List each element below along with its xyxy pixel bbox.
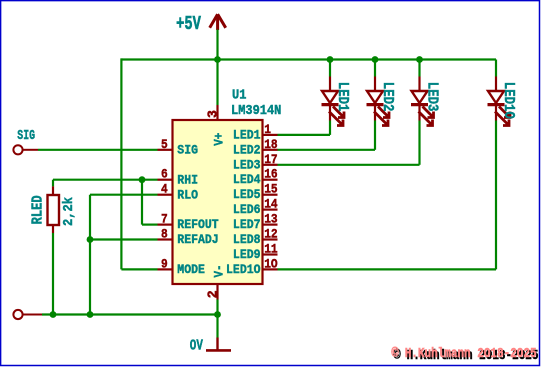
- power flag +5V arrow: [210, 14, 226, 30]
- svg-text:REFOUT: REFOUT: [177, 218, 219, 233]
- svg-text:V+: V+: [212, 133, 227, 146]
- svg-text:H.Kuhlmann 2O18-2O25: H.Kuhlmann 2O18-2O25: [405, 346, 537, 361]
- svg-text:LED1: LED1: [334, 82, 350, 112]
- svg-text:LED4: LED4: [233, 173, 261, 188]
- svg-text:8: 8: [161, 227, 168, 242]
- pin 8 REFADJ: [158, 238, 173, 240]
- svg-text:LM3914N: LM3914N: [231, 102, 281, 118]
- svg-text:16: 16: [264, 167, 277, 182]
- LED LED2: [367, 60, 395, 150]
- wire bottom rail: [42, 313, 218, 315]
- wire RLO horizontal: [90, 194, 158, 196]
- wire left vertical to MODE: [120, 58, 122, 269]
- svg-text:LED8: LED8: [233, 232, 261, 247]
- wire pin2 to rail: [216, 300, 218, 315]
- wire REFADJ horizontal: [90, 238, 158, 240]
- svg-text:9: 9: [161, 257, 168, 272]
- wire SIG to pin5: [38, 149, 158, 151]
- svg-text:LED1: LED1: [233, 128, 261, 143]
- svg-text:LED7: LED7: [233, 217, 261, 232]
- node junction rail at power stem: [214, 56, 221, 63]
- wire pin to LED10: [278, 268, 497, 270]
- pin 2 V- bottom: [206, 264, 226, 299]
- LED LED10: [488, 60, 516, 270]
- wire power stem to pin3: [216, 60, 218, 106]
- svg-text:V-: V-: [212, 264, 227, 277]
- svg-text:U1: U1: [232, 87, 247, 103]
- svg-text:©: ©: [391, 345, 399, 361]
- pin 16: [263, 179, 278, 181]
- svg-text:17: 17: [264, 152, 277, 167]
- svg-text:LED6: LED6: [233, 202, 261, 217]
- node junction REFADJ: [87, 236, 94, 243]
- pin 5 SIG: [158, 149, 173, 151]
- svg-text:5: 5: [161, 137, 168, 152]
- svg-text:REFADJ: REFADJ: [177, 232, 218, 247]
- svg-text:2: 2: [206, 290, 221, 298]
- node junction rail LED2: [372, 56, 379, 63]
- node junction rail LED3: [416, 56, 423, 63]
- pin 11: [263, 253, 278, 255]
- wire resistor top to RHI pin6: [53, 179, 158, 181]
- wire REFOUT horizontal: [142, 224, 158, 226]
- svg-text:1O: 1O: [264, 257, 277, 272]
- svg-text:+5V: +5V: [176, 14, 201, 36]
- svg-text:LED3: LED3: [233, 158, 261, 173]
- pin 10: [263, 268, 278, 270]
- wire RLO/REFADJ vertical: [89, 195, 91, 315]
- wire pin to LED2: [278, 149, 376, 151]
- svg-text:6: 6: [161, 167, 168, 182]
- svg-text:18: 18: [264, 137, 277, 152]
- LED LED1: [322, 60, 350, 135]
- svg-text:LED1O: LED1O: [226, 262, 260, 277]
- node junction rail refadj branch: [87, 311, 94, 318]
- svg-text:RLED: RLED: [31, 195, 47, 224]
- svg-text:RHI: RHI: [177, 173, 198, 188]
- node junction RHI/REFOUT branch: [139, 176, 146, 183]
- svg-text:14: 14: [264, 197, 277, 212]
- svg-text:12: 12: [264, 227, 277, 242]
- wire REFOUT branch vertical: [141, 180, 143, 225]
- wire top rail: [121, 58, 496, 60]
- pin 17: [263, 164, 278, 166]
- connector SIG: [13, 127, 38, 154]
- svg-text:LED2: LED2: [379, 82, 395, 112]
- svg-text:4: 4: [161, 182, 168, 197]
- pin 9 MODE: [158, 268, 173, 270]
- wire pin to LED1: [278, 134, 331, 136]
- resistor RLED 2.2k: [31, 180, 77, 315]
- pin 18: [263, 149, 278, 151]
- svg-text:3: 3: [206, 110, 221, 118]
- pin 1: [263, 134, 278, 136]
- pin 12: [263, 238, 278, 240]
- svg-text:LED1O: LED1O: [500, 82, 516, 119]
- pin 7 REFOUT: [158, 224, 173, 226]
- node junction rail pin2: [214, 311, 221, 318]
- svg-text:LED9: LED9: [233, 247, 261, 262]
- svg-text:SIG: SIG: [17, 127, 35, 143]
- pin 15: [263, 194, 278, 196]
- svg-text:13: 13: [264, 212, 277, 227]
- node junction rail resistor: [50, 311, 57, 318]
- svg-text:2,2k: 2,2k: [61, 197, 77, 226]
- connector bottom rail: [13, 310, 42, 319]
- pin 4 RLO: [158, 194, 173, 196]
- node junction rail LED1: [327, 56, 334, 63]
- svg-text:7: 7: [161, 212, 168, 227]
- svg-text:LED3: LED3: [423, 82, 439, 112]
- LED LED3: [411, 60, 439, 165]
- wire pin to LED3: [278, 164, 420, 166]
- pin 3 V+ top: [206, 105, 226, 146]
- svg-text:MODE: MODE: [177, 262, 205, 277]
- left pin names: [177, 143, 219, 278]
- ground 0V: [190, 315, 231, 355]
- right pin names LED1-LED10: [226, 128, 261, 277]
- op-amp U1 LM3914N body: [173, 120, 263, 284]
- svg-text:OV: OV: [190, 337, 203, 354]
- svg-text:15: 15: [264, 182, 277, 197]
- svg-text:LED2: LED2: [233, 143, 261, 158]
- svg-text:1: 1: [264, 122, 271, 137]
- svg-text:LED5: LED5: [233, 188, 261, 203]
- wire power stem upper: [216, 30, 218, 60]
- svg-text:RLO: RLO: [177, 188, 198, 203]
- pin 14: [263, 209, 278, 211]
- wire MODE horizontal: [121, 268, 157, 270]
- svg-text:11: 11: [264, 242, 277, 257]
- svg-text:SIG: SIG: [177, 143, 198, 158]
- pin 13: [263, 224, 278, 226]
- pin 6 RHI: [158, 179, 173, 181]
